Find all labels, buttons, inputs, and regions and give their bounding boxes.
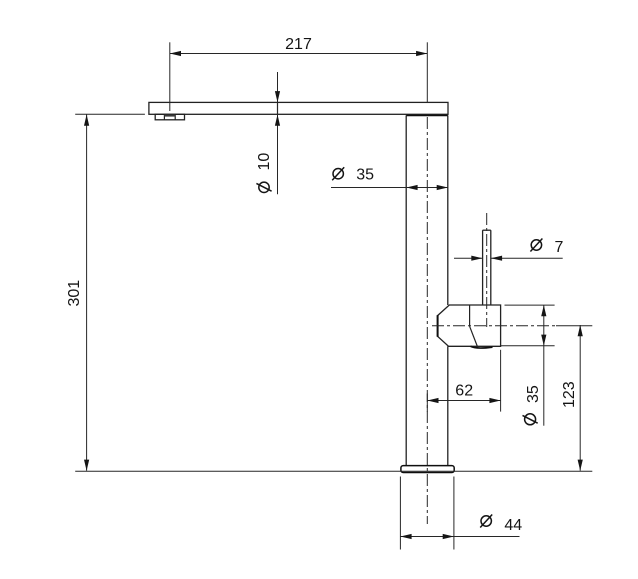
svg-text:123: 123 (561, 381, 578, 408)
svg-text:217: 217 (285, 36, 312, 53)
svg-text:10: 10 (256, 153, 273, 171)
svg-text:44: 44 (504, 517, 522, 534)
svg-text:62: 62 (455, 383, 473, 400)
svg-text:7: 7 (555, 239, 564, 256)
svg-text:35: 35 (525, 385, 542, 403)
svg-text:301: 301 (66, 280, 83, 307)
svg-text:35: 35 (356, 167, 374, 184)
